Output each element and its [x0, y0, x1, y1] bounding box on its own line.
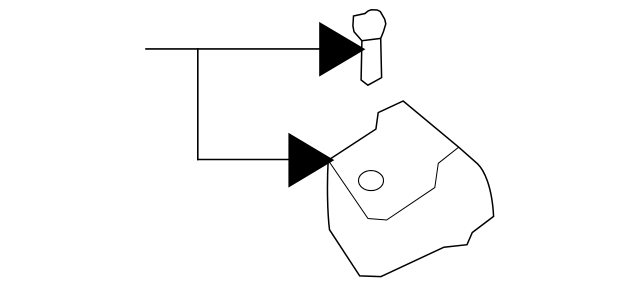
- bolt shaft: [361, 38, 382, 85]
- arrowhead 2 (to bracket): [288, 133, 334, 188]
- wire: top horizontal leader line: [146, 48, 320, 50]
- wire: vertical branch line: [197, 49, 199, 160]
- bracket outer outline: [327, 101, 493, 277]
- bracket inner face contour: [328, 147, 459, 220]
- bolt head: [353, 10, 386, 41]
- wire: lower horizontal leader line: [198, 159, 289, 161]
- arrowhead 1 (to bolt): [319, 22, 365, 77]
- bracket bolt hole (ellipse): [359, 171, 384, 191]
